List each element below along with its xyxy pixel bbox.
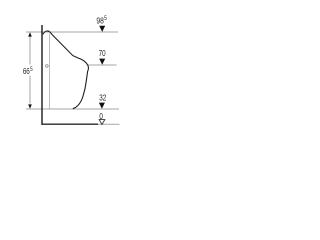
arrow filled down at 32 line bbox=[99, 103, 105, 109]
inner contour line of basin bbox=[49, 34, 51, 109]
arrow filled down at bottom of 66.5 dim bbox=[28, 104, 32, 108]
svg-text:5: 5 bbox=[104, 16, 107, 23]
dimension line 32 level bbox=[26, 108, 119, 110]
svg-text:5: 5 bbox=[30, 66, 33, 73]
fixing hole circle bbox=[46, 65, 49, 68]
label 98.5 bbox=[96, 16, 106, 26]
label 0 bbox=[99, 111, 102, 121]
label 32 bbox=[99, 93, 106, 103]
dimension line 98.5 level bbox=[26, 31, 118, 33]
urinal ceramic outline bbox=[43, 31, 89, 109]
wall line bbox=[41, 25, 43, 125]
arrow filled down at 98.5 line bbox=[99, 26, 105, 32]
open arrow down at 0 line bbox=[99, 120, 105, 125]
svg-text:0: 0 bbox=[99, 111, 102, 121]
svg-text:66: 66 bbox=[23, 66, 30, 76]
label 70 bbox=[99, 48, 106, 58]
svg-text:98: 98 bbox=[96, 16, 103, 26]
floor line dark segment bbox=[42, 123, 99, 125]
label 66.5 bbox=[23, 66, 33, 76]
arrow filled down at 70 line bbox=[99, 59, 105, 65]
dimension line 70 level bbox=[88, 64, 117, 66]
arrow filled up at top of 66.5 dim bbox=[28, 32, 32, 36]
svg-text:70: 70 bbox=[99, 48, 106, 58]
floor line 0 level light right segment bbox=[98, 123, 120, 125]
vertical dimension line 66.5 lower segment bbox=[29, 76, 31, 104]
vertical dimension line 66.5 upper segment bbox=[29, 37, 31, 65]
svg-text:32: 32 bbox=[99, 93, 106, 103]
